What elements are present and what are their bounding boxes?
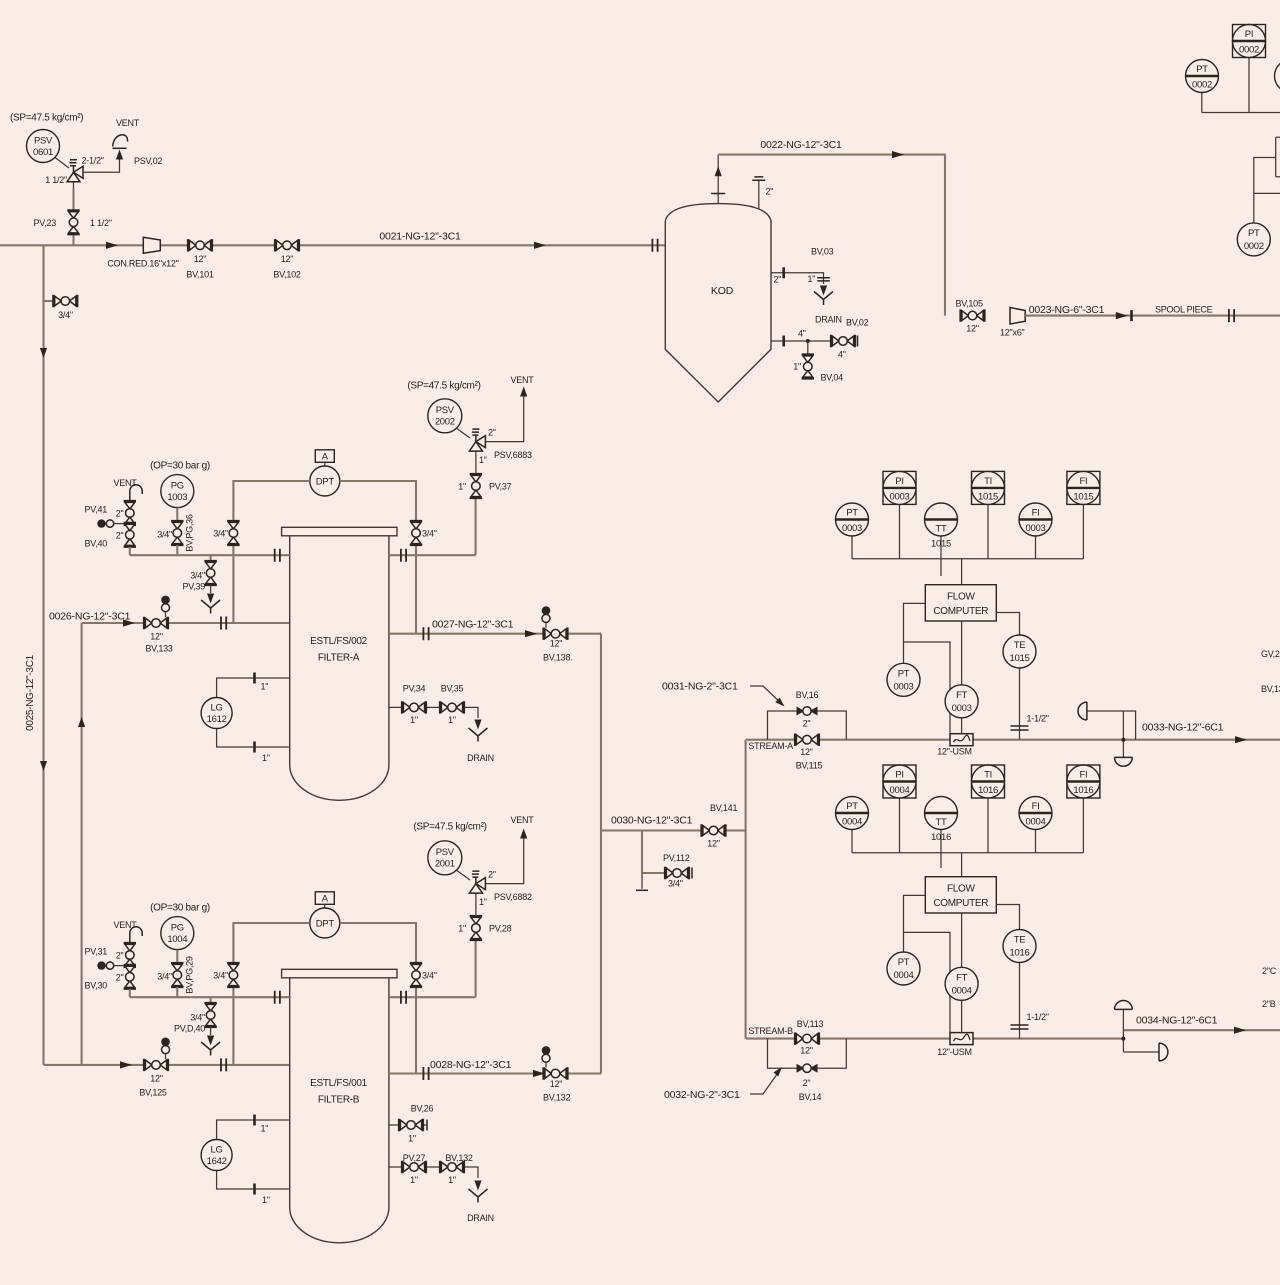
- instrument TE 1016 with 1-1/2" connection: [996, 905, 1048, 1039]
- svg-text:3/4": 3/4": [190, 571, 205, 581]
- KOD 2 inch blind nozzle: [752, 177, 773, 210]
- svg-text:0004: 0004: [952, 985, 972, 996]
- svg-text:1015: 1015: [931, 539, 951, 550]
- instrument PT 0003 transmitter with tap: [887, 603, 950, 733]
- svg-text:LG: LG: [211, 1145, 223, 1156]
- valve PV,37 1": [458, 474, 511, 498]
- svg-text:2": 2": [803, 719, 811, 729]
- svg-text:0003: 0003: [952, 703, 972, 714]
- svg-text:VENT: VENT: [114, 478, 138, 488]
- DPT impulse line left (filter B): [233, 923, 309, 1065]
- svg-text:FI: FI: [1032, 801, 1040, 812]
- instrument FI 1015 panel: [1067, 471, 1100, 558]
- svg-text:BV,04: BV,04: [821, 373, 844, 383]
- svg-text:1": 1": [262, 1195, 270, 1205]
- pressure gauge PG 1004 with OP label: [150, 902, 210, 963]
- KOD drain nozzle with blind BV,03 and funnel: [771, 247, 842, 325]
- svg-text:3/4": 3/4": [422, 529, 437, 539]
- pipe 0021-NG-12"-3C1 main inlet line with flow arrows: [0, 231, 665, 249]
- instrument FI 0003 indicator: [1019, 503, 1052, 559]
- reducer 12"x6": [1000, 308, 1025, 338]
- svg-text:PI: PI: [1245, 29, 1253, 40]
- svg-text:BV,132: BV,132: [445, 1153, 472, 1163]
- svg-text:PI: PI: [895, 770, 903, 781]
- valve BV,102 12": [273, 239, 300, 279]
- valve BV,138 12" with stem: [542, 606, 573, 662]
- svg-text:12": 12": [707, 839, 720, 849]
- svg-text:BV,PG,36: BV,PG,36: [185, 514, 195, 551]
- svg-text:SPOOL PIECE: SPOOL PIECE: [1155, 304, 1213, 314]
- svg-text:1015: 1015: [978, 491, 998, 502]
- svg-text:0004: 0004: [842, 817, 862, 828]
- instrument TT 1015 transmitter: [925, 503, 958, 576]
- svg-text:BV,105: BV,105: [956, 299, 983, 309]
- instrument TE 1015 with 1-1/2" connection: [996, 613, 1048, 740]
- svg-text:BV,141: BV,141: [710, 803, 737, 813]
- svg-text:1": 1": [262, 753, 270, 763]
- svg-text:1": 1": [261, 682, 269, 692]
- svg-text:3/4": 3/4": [190, 1013, 205, 1023]
- level gauge LG 1642 with connections: [201, 1115, 290, 1206]
- pressure relief valve PSV,6883: [469, 427, 532, 474]
- svg-text:1-1/2": 1-1/2": [1027, 1012, 1049, 1022]
- flange break at KOD inlet: [652, 239, 657, 252]
- pressure relief valve PSV,6882: [469, 869, 532, 916]
- svg-text:PV,28: PV,28: [489, 923, 512, 933]
- KOD bottom outlet 4" with valve BV,02: [771, 318, 869, 360]
- svg-text:BV,125: BV,125: [139, 1088, 166, 1098]
- valve BV,30 2" with gauge stem: [85, 961, 136, 997]
- svg-text:PV,37: PV,37: [489, 481, 512, 491]
- svg-text:12": 12": [966, 324, 979, 334]
- valve 3/4" DPT left tap (filter B): [213, 963, 239, 987]
- instrument bus stream B: [852, 852, 1083, 854]
- bypass line 0032-NG-2"-3C1 with leader: [664, 1039, 846, 1101]
- svg-text:3/4": 3/4": [213, 971, 228, 981]
- control valve PV,23: [34, 188, 112, 245]
- pipe metering riser: [745, 740, 747, 1039]
- svg-text:VENT: VENT: [510, 815, 534, 825]
- riser to PSV 2002 (filter A): [475, 498, 477, 555]
- svg-text:BV,PG,29: BV,PG,29: [185, 956, 195, 993]
- svg-text:1016: 1016: [978, 785, 998, 796]
- instrument FI 1016 panel: [1067, 765, 1100, 853]
- svg-text:2": 2": [774, 275, 782, 285]
- svg-text:1016: 1016: [1010, 948, 1030, 959]
- svg-text:PV,27: PV,27: [403, 1153, 426, 1163]
- svg-text:FT: FT: [956, 690, 968, 701]
- vessel filter B ESTL/FS/001: [282, 969, 397, 1242]
- svg-text:12"x6": 12"x6": [1000, 328, 1024, 338]
- svg-text:12": 12": [194, 254, 207, 264]
- svg-text:0004: 0004: [1026, 817, 1046, 828]
- svg-text:12": 12": [550, 1079, 563, 1089]
- svg-text:0026-NG-12"-3C1: 0026-NG-12"-3C1: [49, 611, 131, 623]
- pipe STREAM-A metering run: [746, 740, 1136, 751]
- instrument bus top right: [1202, 112, 1280, 114]
- instrument bubble PSV 2002 with setpoint label: [407, 380, 480, 438]
- svg-text:1": 1": [448, 715, 456, 725]
- svg-text:PT: PT: [846, 801, 858, 812]
- svg-text:12": 12": [150, 1074, 163, 1084]
- pipe 0023-NG-6"-3C1 spool piece line: [1025, 304, 1280, 322]
- ultrasonic flow meter 12"-USM (stream A): [937, 734, 973, 757]
- svg-text:PV,D,40: PV,D,40: [174, 1024, 205, 1034]
- svg-text:1": 1": [261, 1124, 269, 1134]
- valve BV,40 2" with gauge stem: [85, 519, 136, 555]
- svg-text:2": 2": [803, 1078, 811, 1088]
- svg-text:0030-NG-12"-3C1: 0030-NG-12"-3C1: [611, 814, 693, 826]
- svg-text:1015: 1015: [1073, 491, 1093, 502]
- instrument FI 0004 indicator: [1019, 797, 1052, 853]
- svg-text:PV,41: PV,41: [85, 504, 108, 514]
- svg-text:1": 1": [408, 1134, 416, 1144]
- pipe 0034-NG-12"-6C1 outlet with vent pots: [1115, 1001, 1280, 1061]
- svg-text:(OP=30 bar g): (OP=30 bar g): [150, 902, 210, 913]
- svg-text:2": 2": [116, 973, 124, 983]
- svg-text:3/4": 3/4": [668, 879, 683, 889]
- svg-text:3/4": 3/4": [157, 972, 172, 982]
- vessel KOD knock-out drum: [665, 204, 771, 402]
- svg-text:1016: 1016: [1073, 785, 1093, 796]
- svg-text:1": 1": [410, 1175, 418, 1185]
- svg-text:STREAM-A: STREAM-A: [748, 741, 793, 751]
- svg-text:12": 12": [800, 1046, 813, 1056]
- svg-text:1": 1": [479, 455, 487, 465]
- svg-text:TE: TE: [1014, 640, 1026, 651]
- svg-text:FI: FI: [1079, 770, 1087, 781]
- svg-text:1-1/2": 1-1/2": [1027, 713, 1049, 723]
- valve PV,41 2": [85, 501, 136, 525]
- valve PV,31 2": [85, 943, 136, 967]
- pipe 0026-NG-12"-3C1 filter A inlet: [49, 611, 290, 630]
- pipe 0022-NG-12"-3C1 from KOD to BV,105: [718, 139, 945, 316]
- svg-text:PV,39: PV,39: [183, 582, 206, 592]
- svg-text:2002: 2002: [435, 417, 455, 428]
- pipe 0030-NG-12"-3C1: [601, 814, 746, 830]
- svg-text:12": 12": [281, 254, 294, 264]
- svg-text:1": 1": [458, 923, 466, 933]
- svg-text:1003: 1003: [167, 492, 187, 503]
- svg-text:A: A: [322, 893, 329, 904]
- valve labels GV,27 and BV,13 at right edge: [1261, 649, 1280, 694]
- svg-text:PSV,6882: PSV,6882: [494, 892, 532, 902]
- level gauge LG 1612 with connections: [201, 673, 290, 764]
- DPT impulse line right (filter B): [340, 923, 416, 1074]
- svg-text:12"-USM: 12"-USM: [937, 1047, 971, 1057]
- svg-text:1612: 1612: [207, 714, 227, 725]
- svg-text:2"B: 2"B: [1262, 999, 1276, 1009]
- ultrasonic flow meter 12"-USM (stream B): [937, 1033, 973, 1057]
- valve BV,105 12": [956, 299, 985, 334]
- svg-text:TT: TT: [935, 524, 947, 535]
- instrument PT 0004 transmitter with tap: [887, 895, 950, 1032]
- svg-text:2"C: 2"C: [1262, 966, 1277, 976]
- vessel filter A ESTL/FS/002: [282, 527, 397, 800]
- svg-text:BV,40: BV,40: [85, 539, 108, 549]
- header line filter A top right: [389, 549, 476, 562]
- pipe stub labels 2"C and 2"B at right edge: [1262, 966, 1277, 1009]
- svg-text:BV,101: BV,101: [186, 270, 213, 280]
- drain valve BV,26 1" (filter B): [389, 1104, 434, 1144]
- svg-text:1016: 1016: [931, 832, 951, 843]
- svg-text:BV,14: BV,14: [799, 1092, 822, 1102]
- valve 3/4" DPT right tap (filter A): [410, 521, 437, 545]
- svg-text:BV,13: BV,13: [1261, 684, 1280, 694]
- valve BV,14 2" bypass: [797, 1064, 822, 1102]
- svg-text:BV,03: BV,03: [811, 247, 834, 257]
- svg-text:ESTL/FS/001: ESTL/FS/001: [310, 1078, 367, 1089]
- instrument TT 1016 transmitter: [925, 797, 958, 869]
- instrument TI 1016 panel: [972, 765, 1005, 853]
- drain line filter B with valves PV,27 and BV,132: [389, 1153, 494, 1223]
- svg-text:COMPUTER: COMPUTER: [933, 898, 988, 909]
- svg-text:0002: 0002: [1192, 80, 1212, 91]
- svg-text:12": 12": [150, 632, 163, 642]
- instrument bubble PSV 0601 with setpoint label: [10, 113, 83, 169]
- KOD top outlet nozzle with flange: [711, 155, 725, 204]
- svg-text:BV,35: BV,35: [441, 684, 464, 694]
- svg-text:PG: PG: [171, 481, 184, 492]
- vent stack top left: [83, 118, 140, 172]
- svg-text:0003: 0003: [1026, 523, 1046, 534]
- svg-text:PT: PT: [846, 508, 858, 519]
- svg-text:0025-NG-12"-3C1: 0025-NG-12"-3C1: [25, 654, 36, 730]
- pipe riser from filter B inlet up to 0026 line: [78, 623, 85, 1065]
- svg-text:BV,113: BV,113: [797, 1019, 824, 1029]
- vent line to atmosphere (filter A PSV): [485, 375, 534, 442]
- svg-text:1": 1": [808, 274, 816, 284]
- pipe STREAM-B metering run: [746, 1026, 1124, 1039]
- riser to PSV 2001 (filter B): [475, 940, 477, 997]
- svg-text:PSV: PSV: [436, 847, 455, 858]
- svg-text:BV,115: BV,115: [796, 761, 823, 771]
- svg-text:A: A: [322, 451, 329, 462]
- svg-text:1": 1": [448, 1175, 456, 1185]
- valve BV,16 2" bypass: [796, 690, 819, 729]
- vent line to atmosphere (filter B PSV): [485, 815, 534, 884]
- svg-text:1": 1": [458, 481, 466, 491]
- header line filter B top left: [130, 991, 290, 1004]
- svg-text:2": 2": [116, 950, 124, 960]
- svg-text:2": 2": [488, 427, 496, 437]
- svg-text:FILTER-B: FILTER-B: [318, 1095, 360, 1106]
- valve 3/4" DPT right tap (filter B): [410, 963, 437, 987]
- svg-text:PG: PG: [171, 923, 184, 934]
- svg-text:KOD: KOD: [711, 285, 734, 297]
- svg-text:DPT: DPT: [316, 477, 335, 488]
- svg-text:0028-NG-12"-3C1: 0028-NG-12"-3C1: [430, 1059, 512, 1071]
- pipe filter B inlet line: [44, 1058, 290, 1071]
- valve BV,101 12": [186, 239, 213, 279]
- svg-text:12": 12": [550, 639, 563, 649]
- svg-text:0021-NG-12"-3C1: 0021-NG-12"-3C1: [379, 231, 461, 243]
- flow computer (stream B): [925, 853, 996, 913]
- svg-text:0003: 0003: [842, 523, 862, 534]
- svg-text:FI: FI: [1032, 508, 1040, 519]
- svg-text:0032-NG-2"-3C1: 0032-NG-2"-3C1: [664, 1089, 740, 1101]
- drain valve PV,39 3/4" with funnel: [183, 555, 221, 613]
- svg-text:BV,132: BV,132: [543, 1093, 570, 1103]
- svg-text:1": 1": [479, 897, 487, 907]
- pipe 0027-NG-12"-3C1 filter A outlet: [389, 619, 601, 641]
- header line filter B top right: [389, 991, 476, 1004]
- valve BV,125 12" with stem: [139, 1038, 169, 1098]
- instrument PT 0002 field mounted with signal wires: [1237, 158, 1280, 256]
- drain line filter A with valves PV,34 and BV,35: [389, 684, 494, 763]
- valve BV,141 12": [702, 803, 738, 849]
- svg-text:4": 4": [798, 329, 806, 339]
- svg-text:0003: 0003: [890, 491, 910, 502]
- DPT impulse line left (filter A): [233, 481, 309, 623]
- svg-text:BV,02: BV,02: [846, 318, 869, 328]
- valve BV,132 12" with stem: [542, 1046, 571, 1102]
- svg-text:0601: 0601: [33, 147, 53, 158]
- svg-text:1642: 1642: [207, 1156, 227, 1167]
- vent gooseneck and VENT label (filter A): [114, 478, 143, 501]
- svg-text:PSV,6883: PSV,6883: [494, 450, 532, 460]
- svg-text:TI: TI: [984, 770, 992, 781]
- valve BV,PG,29 3/4": [157, 956, 194, 997]
- pressure relief valve PSV,02: [45, 156, 162, 189]
- svg-text:DPT: DPT: [316, 919, 335, 930]
- svg-text:PV,31: PV,31: [85, 946, 108, 956]
- junction box partial at right edge: [1276, 137, 1280, 177]
- differential pressure transmitter DPT with A box (filter A): [310, 450, 340, 496]
- svg-text:0033-NG-12"-6C1: 0033-NG-12"-6C1: [1142, 722, 1224, 734]
- drain valve PV,D,40 3/4" with funnel: [174, 997, 220, 1055]
- svg-text:FILTER-A: FILTER-A: [318, 653, 360, 664]
- svg-text:0034-NG-12"-6C1: 0034-NG-12"-6C1: [1136, 1014, 1218, 1026]
- instrument PT 0003 indicator: [836, 503, 869, 559]
- svg-text:TE: TE: [1014, 935, 1026, 946]
- svg-text:BV,138.: BV,138.: [543, 653, 572, 663]
- svg-text:0023-NG-6"-3C1: 0023-NG-6"-3C1: [1029, 304, 1105, 316]
- instrument PI 0002 panel mounted: [1233, 25, 1266, 113]
- svg-text:PSV: PSV: [34, 136, 53, 147]
- svg-text:3/4": 3/4": [58, 310, 73, 320]
- svg-text:FI: FI: [1079, 476, 1087, 487]
- svg-text:1 1/2": 1 1/2": [45, 175, 67, 185]
- svg-text:(SP=47.5 kg/cm²): (SP=47.5 kg/cm²): [10, 113, 83, 124]
- svg-text:GV,27: GV,27: [1261, 649, 1280, 659]
- svg-text:BV,133: BV,133: [145, 644, 172, 654]
- svg-text:3/4": 3/4": [213, 529, 228, 539]
- pipe 0028-NG-12"-3C1 filter B outlet: [389, 1059, 601, 1080]
- svg-text:3/4": 3/4": [157, 530, 172, 540]
- svg-text:BV,16: BV,16: [796, 690, 819, 700]
- valve PV,28 1": [458, 916, 511, 940]
- svg-text:4": 4": [838, 350, 846, 360]
- instrument FT 0004 transmitter: [945, 913, 978, 1033]
- svg-text:1004: 1004: [167, 934, 187, 945]
- svg-text:12"-USM: 12"-USM: [937, 747, 971, 757]
- pipe vertical link 0027 to 0028: [600, 634, 602, 1074]
- DPT impulse line right (filter A): [340, 481, 416, 634]
- svg-text:PV,23: PV,23: [34, 218, 57, 228]
- svg-text:PV,34: PV,34: [403, 684, 426, 694]
- svg-text:(OP=30 bar g): (OP=30 bar g): [150, 460, 210, 471]
- svg-text:BV,26: BV,26: [411, 1104, 434, 1114]
- pipe 0025-NG-12"-3C1 vertical line with flow arrows and label: [25, 245, 47, 1065]
- valve BV,115 12": [795, 734, 823, 771]
- instrument PT 0004 indicator: [836, 797, 869, 853]
- svg-text:BV,30: BV,30: [85, 981, 108, 991]
- svg-text:ESTL/FS/002: ESTL/FS/002: [310, 636, 367, 647]
- instrument PI 0004 panel: [883, 765, 916, 853]
- svg-text:DRAIN: DRAIN: [467, 753, 494, 763]
- svg-text:1015: 1015: [1010, 653, 1030, 664]
- reducer CON.RED.16"x12": [107, 237, 178, 268]
- valve BV,04 1": [793, 341, 843, 383]
- svg-text:(SP=47.5 kg/cm²): (SP=47.5 kg/cm²): [407, 380, 480, 391]
- svg-text:2": 2": [766, 187, 774, 197]
- svg-text:LG: LG: [211, 703, 223, 714]
- instrument PI 0003 panel: [883, 471, 916, 558]
- instrument FT 0003 transmitter: [945, 621, 978, 734]
- bypass line 0031-NG-2"-3C1 with leader: [662, 680, 846, 739]
- svg-text:STREAM-B: STREAM-B: [748, 1026, 793, 1036]
- svg-text:FT: FT: [956, 972, 968, 983]
- svg-text:VENT: VENT: [510, 375, 534, 385]
- svg-text:PT: PT: [898, 957, 910, 968]
- svg-text:1 1/2": 1 1/2": [90, 218, 112, 228]
- pressure gauge PG 1003 with OP label: [150, 460, 210, 521]
- svg-text:0003: 0003: [894, 681, 914, 692]
- svg-text:PI: PI: [895, 476, 903, 487]
- svg-text:DRAIN: DRAIN: [467, 1213, 494, 1223]
- svg-text:DRAIN: DRAIN: [815, 315, 842, 325]
- instrument bubble PSV 2001 with setpoint label: [413, 821, 486, 880]
- svg-text:VENT: VENT: [114, 920, 138, 930]
- svg-text:0031-NG-2"-3C1: 0031-NG-2"-3C1: [662, 680, 738, 692]
- svg-text:2": 2": [116, 508, 124, 518]
- svg-text:2": 2": [116, 531, 124, 541]
- svg-text:TI: TI: [984, 476, 992, 487]
- svg-text:0002: 0002: [1244, 241, 1264, 252]
- svg-text:0004: 0004: [890, 785, 910, 796]
- pipe 0033-NG-12"-6C1 outlet with vent pots: [1078, 702, 1280, 766]
- svg-text:3/4": 3/4": [422, 971, 437, 981]
- partial instrument circle at right edge: [1275, 60, 1280, 93]
- svg-text:COMPUTER: COMPUTER: [933, 606, 988, 617]
- svg-text:1": 1": [793, 362, 801, 372]
- flow computer (stream A): [925, 559, 996, 621]
- svg-text:(SP=47.5 kg/cm²): (SP=47.5 kg/cm²): [413, 821, 486, 832]
- svg-text:FLOW: FLOW: [947, 884, 976, 895]
- valve 3/4" DPT left tap (filter A): [213, 521, 239, 545]
- svg-text:0022-NG-12"-3C1: 0022-NG-12"-3C1: [760, 139, 842, 151]
- svg-text:2001: 2001: [435, 859, 455, 870]
- svg-text:0002: 0002: [1239, 45, 1259, 56]
- svg-text:0004: 0004: [894, 970, 914, 981]
- svg-text:PT: PT: [1248, 228, 1260, 239]
- svg-text:PT: PT: [898, 668, 910, 679]
- valve BV,133 12" with stem: [144, 596, 173, 654]
- instrument bus stream A: [852, 558, 1083, 560]
- vent gooseneck and VENT label (filter B): [114, 920, 143, 943]
- svg-text:PSV,02: PSV,02: [134, 156, 162, 166]
- svg-text:BV,102: BV,102: [273, 270, 300, 280]
- branch with valve PV,112 3/4" and end cap: [636, 831, 692, 891]
- svg-text:PSV: PSV: [436, 405, 455, 416]
- valve 3/4" on 0025 branch: [44, 295, 78, 320]
- svg-text:2": 2": [488, 869, 496, 879]
- svg-text:0027-NG-12"-3C1: 0027-NG-12"-3C1: [432, 619, 514, 631]
- instrument PT 0002 panel mounted: [1186, 60, 1219, 113]
- svg-text:12": 12": [800, 747, 813, 757]
- svg-text:FLOW: FLOW: [947, 592, 976, 603]
